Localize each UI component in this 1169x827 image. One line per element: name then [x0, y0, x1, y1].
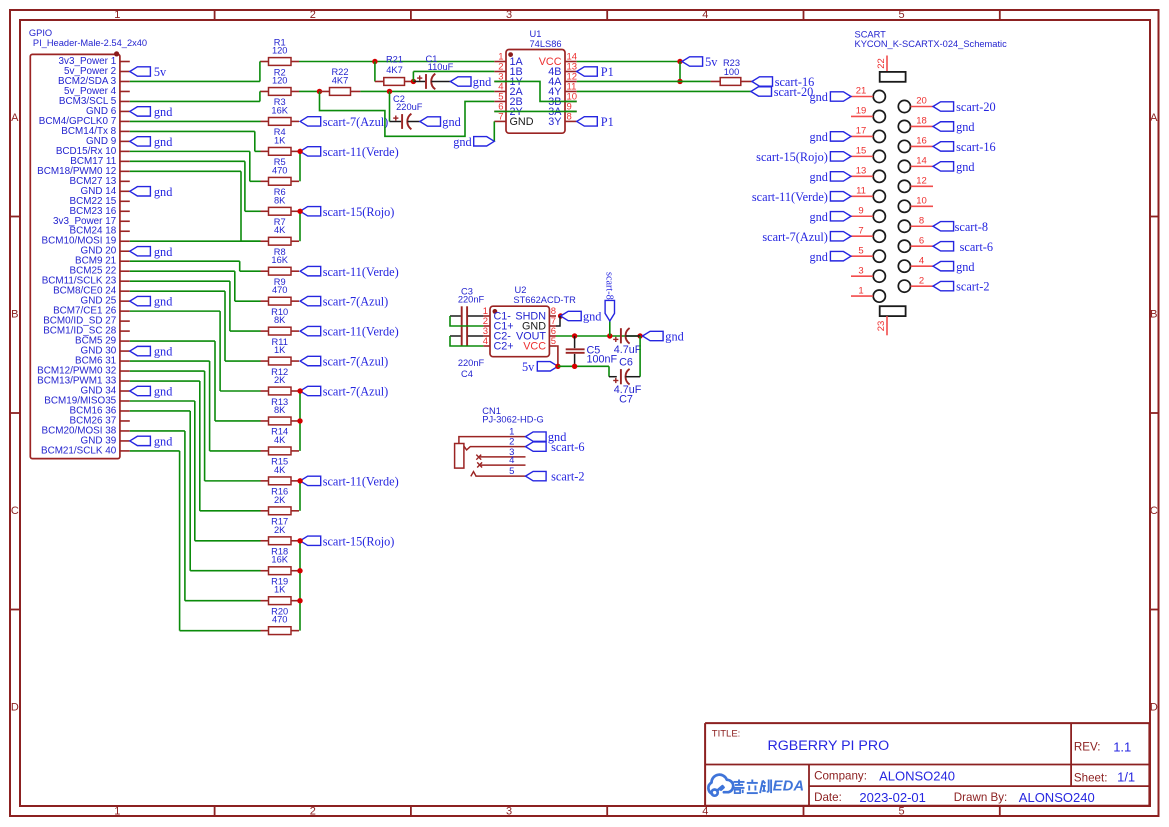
svg-text:scart-8: scart-8 — [603, 272, 614, 300]
svg-text:5v: 5v — [154, 65, 167, 79]
svg-text:16: 16 — [916, 136, 927, 147]
svg-text:scart-11(Verde): scart-11(Verde) — [323, 265, 399, 279]
svg-text:4.7uF: 4.7uF — [614, 344, 642, 356]
svg-text:4: 4 — [483, 336, 488, 347]
svg-text:4: 4 — [702, 805, 708, 817]
svg-text:PJ-3062-HD-G: PJ-3062-HD-G — [482, 415, 543, 425]
svg-text:gnd: gnd — [809, 170, 827, 184]
svg-text:2: 2 — [310, 9, 316, 21]
svg-text:20: 20 — [916, 96, 927, 107]
svg-text:4: 4 — [919, 255, 924, 266]
svg-text:19: 19 — [856, 106, 867, 117]
svg-text:EDA: EDA — [773, 778, 804, 794]
svg-text:B: B — [1150, 309, 1157, 321]
svg-text:scart-20: scart-20 — [774, 85, 814, 99]
svg-text:Company:: Company: — [814, 770, 867, 783]
svg-text:D: D — [1150, 702, 1158, 714]
svg-text:scart-6: scart-6 — [960, 240, 993, 254]
svg-text:scart-7(Azul): scart-7(Azul) — [323, 295, 389, 309]
svg-text:TITLE:: TITLE: — [712, 729, 741, 740]
svg-text:120: 120 — [272, 75, 288, 85]
svg-text:scart-7(Azul): scart-7(Azul) — [323, 355, 389, 369]
svg-text:17: 17 — [856, 126, 867, 137]
svg-text:8: 8 — [919, 215, 924, 226]
svg-text:RGBERRY PI PRO: RGBERRY PI PRO — [768, 738, 890, 754]
svg-text:A: A — [11, 112, 19, 124]
svg-text:gnd: gnd — [154, 185, 172, 199]
svg-text:9: 9 — [858, 205, 863, 216]
svg-text:16K: 16K — [271, 105, 288, 115]
svg-text:A: A — [1150, 112, 1158, 124]
svg-text:18: 18 — [916, 116, 927, 127]
svg-text:470: 470 — [272, 165, 288, 175]
svg-text:scart-7(Azul): scart-7(Azul) — [323, 115, 389, 129]
svg-text:2K: 2K — [274, 375, 286, 385]
svg-text:gnd: gnd — [154, 435, 172, 449]
svg-text:1: 1 — [858, 285, 863, 296]
svg-text:gnd: gnd — [154, 385, 172, 399]
svg-text:C6: C6 — [619, 357, 633, 369]
svg-text:D: D — [11, 702, 19, 714]
svg-text:scart-15(Rojo): scart-15(Rojo) — [323, 534, 395, 548]
svg-text:1K: 1K — [274, 135, 286, 145]
svg-text:5: 5 — [858, 245, 863, 256]
svg-text:scart-7(Azul): scart-7(Azul) — [323, 385, 389, 399]
svg-text:1K: 1K — [274, 345, 286, 355]
svg-text:gnd: gnd — [583, 310, 601, 324]
svg-text:C7: C7 — [619, 393, 633, 405]
svg-text:2K: 2K — [274, 495, 286, 505]
svg-text:scart-6: scart-6 — [551, 440, 584, 454]
svg-text:gnd: gnd — [442, 115, 460, 129]
svg-text:REV:: REV: — [1074, 740, 1101, 753]
svg-text:gnd: gnd — [473, 75, 491, 89]
svg-text:7: 7 — [858, 225, 863, 236]
svg-text:gnd: gnd — [154, 245, 172, 259]
svg-text:C4: C4 — [461, 369, 473, 379]
svg-text:5: 5 — [899, 805, 905, 817]
svg-text:3: 3 — [506, 9, 512, 21]
svg-text:scart-15(Rojo): scart-15(Rojo) — [323, 205, 395, 219]
svg-text:3: 3 — [506, 805, 512, 817]
svg-text:scart-8: scart-8 — [955, 220, 988, 234]
svg-text:5: 5 — [509, 466, 514, 477]
svg-text:2: 2 — [310, 805, 316, 817]
svg-text:gnd: gnd — [809, 130, 827, 144]
svg-text:GPIO: GPIO — [29, 28, 52, 38]
svg-text:220nF: 220nF — [458, 358, 485, 368]
svg-text:8K: 8K — [274, 315, 286, 325]
svg-text:1.1: 1.1 — [1113, 739, 1131, 754]
svg-text:6: 6 — [919, 235, 924, 246]
svg-text:scart-2: scart-2 — [551, 470, 584, 484]
svg-text:1: 1 — [114, 9, 120, 21]
svg-text:Drawn By:: Drawn By: — [954, 791, 1007, 804]
svg-text:5: 5 — [551, 336, 556, 347]
svg-text:gnd: gnd — [453, 135, 471, 149]
svg-text:4K7: 4K7 — [332, 75, 349, 85]
svg-text:5: 5 — [899, 9, 905, 21]
svg-text:2K: 2K — [274, 525, 286, 535]
svg-text:15: 15 — [856, 146, 867, 157]
svg-text:C: C — [1150, 505, 1158, 517]
svg-text:KYCON_K-SCARTX-024_Schematic: KYCON_K-SCARTX-024_Schematic — [855, 39, 1008, 49]
svg-text:2: 2 — [919, 275, 924, 286]
svg-text:ST662ACD-TR: ST662ACD-TR — [513, 295, 576, 305]
svg-text:scart-20: scart-20 — [956, 100, 996, 114]
svg-text:470: 470 — [272, 285, 288, 295]
svg-text:PI_Header-Male-2.54_2x40: PI_Header-Male-2.54_2x40 — [33, 38, 147, 48]
svg-text:P1: P1 — [601, 115, 614, 129]
svg-text:C2+: C2+ — [494, 341, 514, 353]
svg-text:14: 14 — [916, 156, 927, 167]
svg-text:BCM21/SCLK 40: BCM21/SCLK 40 — [41, 445, 117, 456]
svg-text:16K: 16K — [271, 255, 288, 265]
svg-text:scart-11(Verde): scart-11(Verde) — [323, 145, 399, 159]
svg-text:8: 8 — [567, 111, 572, 122]
svg-text:21: 21 — [856, 86, 867, 97]
svg-text:P1: P1 — [601, 65, 614, 79]
svg-text:scart-11(Verde): scart-11(Verde) — [323, 474, 399, 488]
svg-text:gnd: gnd — [956, 120, 974, 134]
svg-text:4: 4 — [702, 9, 708, 21]
svg-text:gnd: gnd — [154, 105, 172, 119]
svg-text:VCC: VCC — [523, 341, 546, 353]
svg-text:gnd: gnd — [154, 345, 172, 359]
svg-text:1/1: 1/1 — [1117, 770, 1135, 785]
svg-text:scart-16: scart-16 — [956, 140, 996, 154]
svg-text:Date:: Date: — [814, 791, 842, 804]
svg-text:gnd: gnd — [154, 135, 172, 149]
svg-text:74LS86: 74LS86 — [530, 39, 562, 49]
svg-text:scart-11(Verde): scart-11(Verde) — [323, 325, 399, 339]
svg-text:gnd: gnd — [665, 330, 683, 344]
svg-text:5v: 5v — [705, 55, 718, 69]
svg-text:scart-7(Azul): scart-7(Azul) — [762, 230, 828, 244]
svg-text:GND: GND — [510, 116, 534, 128]
svg-text:3: 3 — [858, 265, 863, 276]
svg-text:8K: 8K — [274, 405, 286, 415]
svg-text:gnd: gnd — [956, 160, 974, 174]
svg-text:gnd: gnd — [956, 260, 974, 274]
svg-text:11: 11 — [856, 186, 866, 197]
svg-text:1K: 1K — [274, 585, 286, 595]
svg-text:4K: 4K — [274, 225, 286, 235]
svg-text:8K: 8K — [274, 195, 286, 205]
svg-text:SCART: SCART — [855, 30, 887, 40]
svg-text:scart-2: scart-2 — [956, 280, 989, 294]
svg-text:13: 13 — [856, 166, 867, 177]
svg-text:gnd: gnd — [809, 90, 827, 104]
svg-text:12: 12 — [916, 176, 927, 187]
svg-text:2023-02-01: 2023-02-01 — [859, 790, 926, 805]
svg-text:U2: U2 — [515, 285, 527, 295]
svg-text:C: C — [11, 505, 19, 517]
svg-text:gnd: gnd — [809, 250, 827, 264]
svg-text:470: 470 — [272, 615, 288, 625]
svg-text:4K7: 4K7 — [386, 65, 403, 75]
svg-text:4K: 4K — [274, 435, 286, 445]
svg-text:220uF: 220uF — [396, 102, 423, 112]
svg-text:7: 7 — [498, 111, 503, 122]
svg-text:16K: 16K — [271, 555, 288, 565]
svg-text:5v: 5v — [522, 360, 535, 374]
svg-text:120: 120 — [272, 46, 288, 56]
svg-text:U1: U1 — [530, 29, 542, 39]
svg-text:ALONSO240: ALONSO240 — [879, 768, 955, 783]
svg-text:gnd: gnd — [809, 210, 827, 224]
svg-text:22: 22 — [876, 58, 887, 69]
svg-text:4K: 4K — [274, 465, 286, 475]
svg-text:3Y: 3Y — [548, 116, 561, 128]
svg-text:23: 23 — [876, 321, 887, 332]
svg-text:ALONSO240: ALONSO240 — [1019, 790, 1095, 805]
svg-text:10: 10 — [916, 196, 927, 207]
svg-text:Sheet:: Sheet: — [1074, 772, 1108, 785]
svg-text:gnd: gnd — [154, 295, 172, 309]
svg-text:100: 100 — [724, 67, 740, 77]
svg-text:1: 1 — [114, 805, 120, 817]
svg-text:R21: R21 — [386, 55, 403, 65]
svg-text:scart-11(Verde): scart-11(Verde) — [752, 190, 828, 204]
svg-text:220nF: 220nF — [458, 295, 485, 305]
svg-text:4: 4 — [509, 455, 514, 466]
svg-text:B: B — [11, 309, 18, 321]
svg-text:scart-15(Rojo): scart-15(Rojo) — [756, 150, 828, 164]
